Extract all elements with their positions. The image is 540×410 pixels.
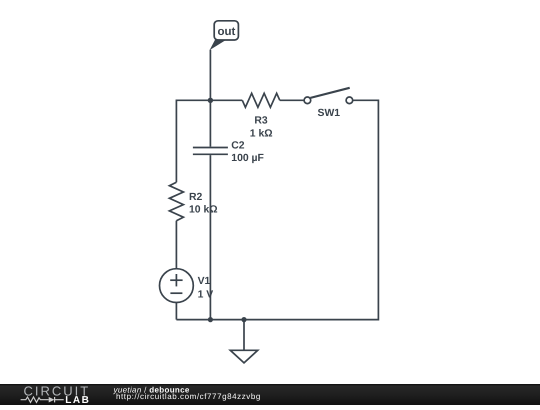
svg-text:1 kΩ: 1 kΩ bbox=[250, 129, 273, 140]
svg-text:LAB: LAB bbox=[65, 395, 90, 405]
wire: V1 to bottom wire bbox=[175, 303, 177, 320]
junction dot: center rail at bottom wire bbox=[208, 317, 213, 322]
wire: R3 to SW1 bbox=[280, 99, 305, 101]
svg-text:http://circuitlab.com/cf777g84: http://circuitlab.com/cf777g84zzvbg bbox=[116, 392, 261, 401]
svg-text:R2: R2 bbox=[189, 192, 203, 203]
node out flag bbox=[210, 21, 239, 50]
wire: node A to C2 bbox=[209, 100, 211, 146]
wire: out flag stem to node A bbox=[209, 50, 211, 101]
wire: C2 to bottom wire bbox=[209, 155, 211, 320]
svg-text:10 kΩ: 10 kΩ bbox=[189, 205, 218, 216]
switch SW1 bbox=[304, 88, 353, 104]
svg-text:C2: C2 bbox=[231, 141, 245, 152]
capacitor C2 bbox=[193, 148, 228, 155]
svg-text:R3: R3 bbox=[254, 116, 268, 127]
resistor R3 bbox=[242, 93, 279, 107]
svg-text:V1: V1 bbox=[198, 276, 211, 287]
node A junction dot bbox=[208, 98, 213, 103]
CircuitLab logo schematic line with resistor and diode bbox=[21, 397, 64, 402]
resistor R2 bbox=[169, 182, 183, 221]
ground bbox=[230, 320, 257, 363]
svg-text:SW1: SW1 bbox=[318, 108, 341, 119]
voltage source V1 bbox=[160, 269, 194, 303]
wire: SW1 to right rail, right rail, bottom wire bbox=[176, 100, 378, 319]
svg-text:out: out bbox=[217, 26, 235, 38]
wire: top wire left + left rail upper bbox=[176, 100, 242, 182]
junction dot: ground at bottom wire bbox=[241, 317, 246, 322]
wire: R2 to V1 bbox=[175, 221, 177, 269]
svg-text:1 V: 1 V bbox=[198, 289, 214, 300]
svg-text:100 µF: 100 µF bbox=[231, 153, 264, 164]
